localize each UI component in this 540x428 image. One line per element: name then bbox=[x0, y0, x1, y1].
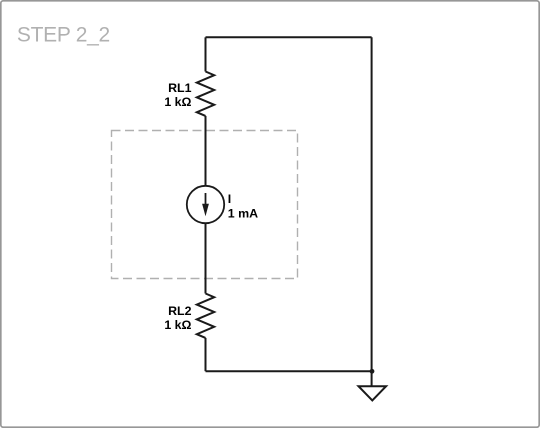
svg-text:1 kΩ: 1 kΩ bbox=[164, 95, 191, 109]
wire: stub to ground bbox=[371, 371, 373, 386]
current source arrow bbox=[205, 193, 207, 207]
wire: top-left vertical into RL1 bbox=[205, 37, 207, 71]
svg-text:RL2: RL2 bbox=[168, 304, 192, 318]
junction node (dot) bbox=[370, 369, 375, 374]
svg-text:1 kΩ: 1 kΩ bbox=[164, 318, 191, 332]
wire: RL1 to current source bbox=[205, 116, 207, 186]
current source I (circle) bbox=[187, 186, 224, 223]
wire: right vertical bbox=[371, 37, 373, 371]
resistor RL2 bbox=[197, 294, 214, 338]
svg-text:RL1: RL1 bbox=[168, 81, 192, 95]
ground bbox=[359, 386, 387, 400]
svg-text:STEP 2_2: STEP 2_2 bbox=[17, 23, 110, 46]
wire: current source to RL2 bbox=[205, 223, 207, 293]
dashed box (highlight region) bbox=[112, 131, 298, 279]
svg-text:1 mA: 1 mA bbox=[228, 207, 258, 221]
wire: top horizontal bbox=[206, 36, 372, 38]
svg-text:I: I bbox=[228, 192, 231, 206]
wire: bottom horizontal bbox=[206, 370, 372, 372]
wire: RL2 to bottom bbox=[205, 338, 207, 371]
resistor RL1 bbox=[197, 72, 214, 116]
